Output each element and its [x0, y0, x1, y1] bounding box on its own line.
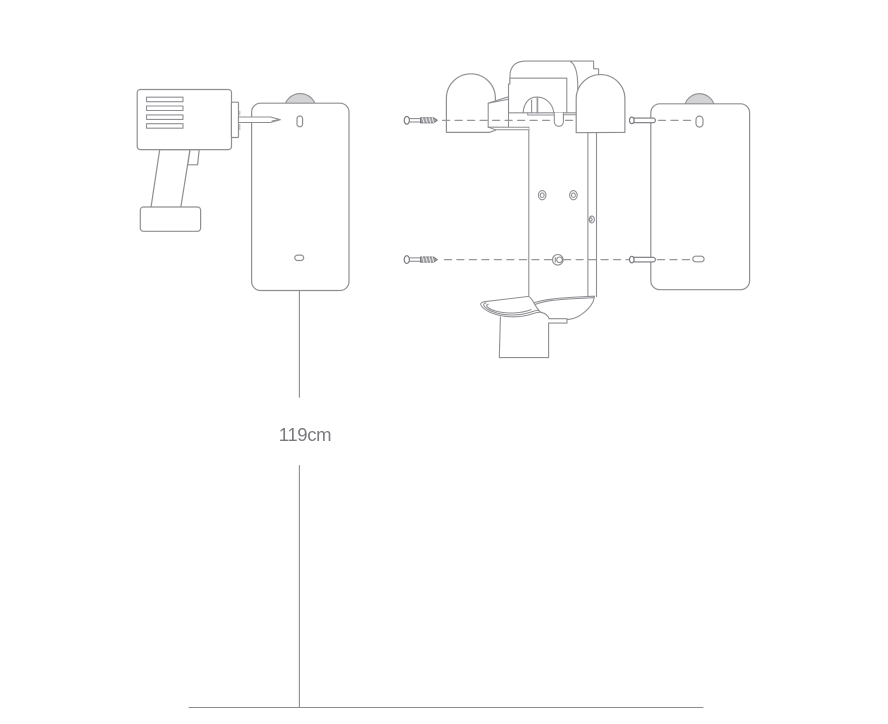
svg-text:119cm: 119cm — [279, 424, 331, 445]
